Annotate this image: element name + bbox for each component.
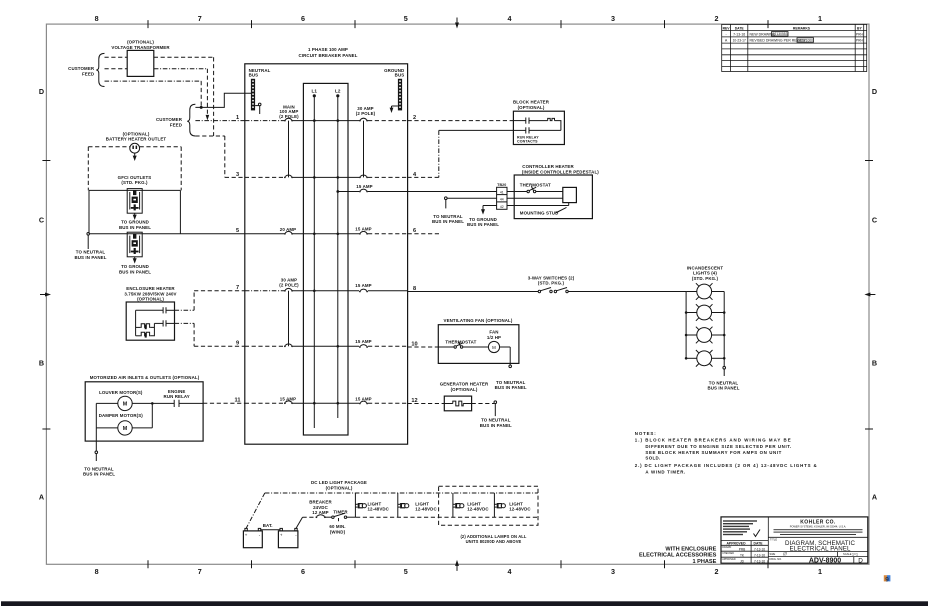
customer feed label lower bbox=[156, 117, 183, 127]
wire battery link bbox=[261, 529, 280, 531]
mounting stud label bbox=[520, 207, 567, 215]
wire row 11 inside panel bbox=[245, 402, 408, 404]
GFCI outlet 1 bbox=[127, 189, 142, 214]
resistor block heater element bbox=[548, 118, 555, 120]
svg-text:12-48VDC: 12-48VDC bbox=[467, 507, 489, 512]
customer feed label upper bbox=[68, 66, 95, 76]
svg-text:BATTERY HEATER OUTLET: BATTERY HEATER OUTLET bbox=[106, 137, 167, 142]
wire thermostat to heater element bbox=[536, 191, 563, 193]
breaker 30 AMP pole 2 row 4 bbox=[359, 175, 368, 178]
wire TB20 pin 41 feed bbox=[408, 191, 497, 193]
controller heater label bbox=[522, 164, 599, 174]
svg-text:(STD. PKG.): (STD. PKG.) bbox=[538, 281, 565, 286]
svg-text:VOLTAGE TRANSFORMER: VOLTAGE TRANSFORMER bbox=[111, 45, 170, 50]
svg-text:WITH ENCLOSURE: WITH ENCLOSURE bbox=[665, 546, 716, 552]
wire DC negative rail bbox=[347, 516, 538, 518]
DC breaker label bbox=[309, 500, 332, 515]
svg-text:REMARKS: REMARKS bbox=[793, 26, 811, 30]
wire feed line B (dashed) bbox=[105, 69, 210, 121]
svg-text:BUS IN PANEL: BUS IN PANEL bbox=[480, 423, 512, 428]
lamp DS2 bbox=[686, 304, 724, 321]
switch S2 bbox=[554, 288, 568, 293]
customer feed brace upper bbox=[96, 53, 104, 86]
lamps neutral label bbox=[707, 380, 739, 390]
LED lamp LED3 label bbox=[467, 501, 489, 511]
wire lamp bus left bbox=[685, 292, 687, 359]
svg-text:+: + bbox=[245, 533, 248, 538]
enclosure heater contact lower bbox=[154, 320, 174, 326]
svg-text:GT130553: GT130553 bbox=[772, 32, 788, 36]
timer switch bbox=[332, 513, 347, 521]
svg-text:B: B bbox=[872, 359, 877, 368]
svg-text:8: 8 bbox=[95, 567, 99, 576]
node L1 bbox=[311, 88, 317, 97]
svg-text:LOUVER MOTOR(S): LOUVER MOTOR(S) bbox=[99, 390, 143, 395]
panel bus assembly box bbox=[303, 83, 348, 435]
GFCI outlets box bbox=[89, 190, 180, 233]
circuit breaker panel title bbox=[298, 47, 357, 58]
svg-text:(STD. PKG.): (STD. PKG.) bbox=[692, 276, 719, 281]
battery BAT1 bbox=[243, 528, 262, 547]
battery heater outlet receptacle bbox=[130, 143, 140, 153]
wire neutral feed to panel bbox=[195, 93, 251, 107]
svg-text:RUN RELAY: RUN RELAY bbox=[164, 394, 190, 399]
enclosure heater internal tie bbox=[136, 310, 141, 336]
node junction dot neutral feed bbox=[200, 106, 203, 109]
breaker MAIN 100 AMP 2 POLE label bbox=[279, 104, 299, 119]
GFCI outlet 1 ground label bbox=[119, 220, 151, 230]
zone row labels left bbox=[39, 87, 44, 502]
run relay contacts label bbox=[517, 135, 539, 143]
svg-text:(OPTIONAL): (OPTIONAL) bbox=[326, 485, 353, 490]
svg-text:15 AMP: 15 AMP bbox=[356, 184, 372, 189]
wire fan feed bbox=[438, 346, 454, 348]
svg-text:DRAWN: DRAWN bbox=[722, 546, 731, 549]
svg-text:SCALE: SCALE bbox=[843, 552, 852, 556]
additional lamps dashed box bbox=[439, 486, 538, 525]
generator heater label bbox=[440, 382, 489, 392]
svg-text:12-48VDC: 12-48VDC bbox=[368, 507, 390, 512]
svg-text:DATE: DATE bbox=[754, 542, 764, 546]
ground bus label bbox=[384, 68, 404, 78]
switch S1 bbox=[538, 288, 552, 293]
svg-text:DWG. NO.: DWG. NO. bbox=[770, 557, 783, 561]
svg-text:15 AMP: 15 AMP bbox=[355, 339, 371, 344]
additional lamps note bbox=[460, 534, 526, 544]
wire bus L1 bbox=[313, 96, 315, 428]
svg-text:BUS: BUS bbox=[395, 73, 405, 78]
wire DC positive rail bbox=[246, 493, 538, 528]
wire feed line A (dashed) bbox=[105, 57, 214, 136]
svg-text:FEED: FEED bbox=[170, 122, 182, 127]
svg-text:C: C bbox=[39, 216, 44, 225]
lamp DS3 bbox=[686, 327, 724, 344]
svg-text:1: 1 bbox=[818, 567, 822, 576]
wire generator heater to neutral bbox=[472, 401, 497, 416]
ground bus terminal strip bbox=[398, 79, 402, 111]
wire feed line C (dash-dot) bbox=[105, 81, 202, 107]
svg-text:DATE: DATE bbox=[735, 26, 745, 30]
wire motor bus left bbox=[96, 403, 118, 428]
neutral label row 5 bbox=[74, 250, 106, 260]
GFCI outlet 2 bbox=[127, 232, 142, 257]
GFCI outlet 2 ground label bbox=[119, 264, 151, 274]
wire breaker to timer bbox=[325, 516, 331, 518]
3-way switches label bbox=[528, 275, 575, 285]
generator heater box bbox=[444, 396, 471, 411]
svg-text:1: 1 bbox=[818, 14, 822, 23]
motor M1 louver bbox=[118, 396, 132, 410]
battery heater outlet dashed enclosure bbox=[88, 147, 181, 191]
svg-text:PRB: PRB bbox=[739, 547, 746, 551]
motor M2 damper bbox=[118, 421, 132, 435]
svg-text:POWER SYSTEMS, KOHLER, WI 5304: POWER SYSTEMS, KOHLER, WI 53044, U.S.A. bbox=[790, 525, 847, 529]
svg-text:M: M bbox=[492, 345, 496, 350]
svg-text:7-13-16: 7-13-16 bbox=[733, 32, 745, 36]
wire neutral pigtail bbox=[255, 103, 261, 114]
svg-text:TIMER: TIMER bbox=[333, 510, 348, 515]
lamp DS4 bbox=[686, 350, 724, 367]
svg-text:TITLE: TITLE bbox=[770, 537, 777, 541]
svg-text:1.) BLOCK HEATER BREAKERS AND: 1.) BLOCK HEATER BREAKERS AND WIRING MAY… bbox=[635, 438, 791, 443]
svg-text:BUS IN PANEL: BUS IN PANEL bbox=[119, 269, 151, 274]
drawing subtitle text bbox=[639, 546, 717, 565]
breaker 15 AMP row 6 bbox=[359, 231, 368, 234]
svg-text:(2 POLE): (2 POLE) bbox=[279, 282, 299, 287]
LED lamp LED4 tap bbox=[493, 493, 495, 517]
neutral label TB20 bbox=[432, 214, 464, 224]
svg-text:+: + bbox=[280, 533, 283, 538]
svg-text:CONTACTS: CONTACTS bbox=[517, 140, 538, 144]
svg-text:PRH: PRH bbox=[856, 32, 864, 36]
svg-text:UNITS 80200D AND ABOVE: UNITS 80200D AND ABOVE bbox=[466, 539, 522, 544]
wire row 10 dashed to fan bbox=[408, 346, 439, 348]
svg-text:BUS IN PANEL: BUS IN PANEL bbox=[119, 225, 151, 230]
svg-text:MOUNTING STUD: MOUNTING STUD bbox=[520, 210, 559, 215]
wire thermostat to fan motor bbox=[463, 346, 489, 348]
svg-text:NOTES:: NOTES: bbox=[635, 431, 656, 436]
breaker 15 AMP row 10 bbox=[359, 345, 368, 348]
svg-text:PRH: PRH bbox=[856, 39, 864, 43]
LED lamp LED4 label bbox=[509, 501, 531, 511]
run relay contact lower bbox=[513, 127, 561, 133]
battery BAT2 bbox=[278, 528, 298, 547]
wire pin 44 to heater element bbox=[507, 197, 563, 199]
svg-text:THERMOSTAT: THERMOSTAT bbox=[520, 183, 551, 188]
svg-text:9: 9 bbox=[885, 576, 889, 583]
LED lamp LED2 bbox=[398, 503, 409, 508]
svg-text:D: D bbox=[39, 87, 44, 96]
controller heater box bbox=[514, 175, 592, 219]
bottom black bar bbox=[1, 601, 928, 606]
resistor heater element 2 bbox=[140, 332, 151, 337]
wire row 5 inside panel bbox=[245, 233, 408, 235]
wire lamps neutral stub bbox=[723, 366, 726, 376]
svg-text:FEED: FEED bbox=[82, 71, 94, 76]
wire pin 42 to mounting stud bbox=[507, 203, 569, 206]
wire 15 AMP half row bbox=[336, 190, 407, 193]
wire MAIN pole tie bbox=[288, 121, 290, 178]
svg-text:7: 7 bbox=[198, 567, 202, 576]
svg-text:15 AMP: 15 AMP bbox=[355, 396, 371, 401]
fan label bbox=[487, 330, 501, 340]
resistor heater element 1 bbox=[140, 324, 151, 329]
svg-text:SIZE: SIZE bbox=[770, 552, 776, 556]
wire block heater return to row 4 bbox=[408, 130, 514, 177]
heater element block controller bbox=[563, 187, 577, 202]
svg-text:CHECKED: CHECKED bbox=[722, 552, 734, 555]
wire neutral stub below row 5 bbox=[87, 235, 89, 249]
lamp DS1 bbox=[686, 283, 724, 300]
circuit breaker panel enclosure bbox=[245, 64, 408, 444]
wire row 8 to switches bbox=[408, 291, 539, 293]
svg-text:(STD. PKG.): (STD. PKG.) bbox=[121, 180, 148, 185]
revision table bbox=[722, 24, 867, 71]
svg-text:A WIND TIMER.: A WIND TIMER. bbox=[645, 469, 685, 474]
neutral bus label bbox=[249, 68, 271, 78]
terminal block TB20 bbox=[497, 187, 507, 209]
wire 30 AMP pole tie bbox=[288, 291, 290, 347]
svg-text:GT171000: GT171000 bbox=[797, 38, 813, 42]
center mark arrow bottom bbox=[455, 560, 459, 571]
svg-text:2: 2 bbox=[715, 567, 719, 576]
svg-text:VENTILATING FAN (OPTIONAL): VENTILATING FAN (OPTIONAL) bbox=[444, 318, 513, 323]
center mark arrow top bbox=[455, 18, 459, 29]
breaker 20 AMP row 5 bbox=[284, 231, 293, 234]
wire motor M1 to relay bbox=[132, 402, 203, 404]
breaker DC 12 AMP bbox=[316, 515, 326, 518]
svg-text:15 AMP: 15 AMP bbox=[355, 283, 371, 288]
svg-text:BUS IN PANEL: BUS IN PANEL bbox=[495, 385, 527, 390]
svg-text:TB20: TB20 bbox=[497, 183, 506, 187]
node taps on L1/L2 bbox=[313, 119, 339, 404]
svg-text:2.) DC LIGHT PACKAGE INCLUDES: 2.) DC LIGHT PACKAGE INCLUDES (2 OR 4) 1… bbox=[635, 463, 818, 468]
wire switches to lamp bus bbox=[568, 291, 686, 293]
wire pin 42 to ground arrow bbox=[481, 206, 497, 215]
battery heater outlet label bbox=[106, 131, 167, 141]
resistor generator heater bbox=[444, 401, 471, 406]
zone ticks left border bbox=[42, 161, 50, 430]
zone ticks right border bbox=[865, 161, 873, 430]
svg-text:(OPTIONAL): (OPTIONAL) bbox=[518, 105, 545, 110]
svg-text:6: 6 bbox=[301, 567, 305, 576]
svg-text:SOLD.: SOLD. bbox=[645, 456, 660, 461]
node neutral terminal circle row 5 bbox=[87, 233, 90, 236]
svg-text:DIFFERENT DUE TO ENGINE SIZE S: DIFFERENT DUE TO ENGINE SIZE SELECTED PE… bbox=[645, 444, 791, 449]
thermostat switch controller bbox=[527, 186, 536, 192]
GFCI outlet 2 ground arrow bbox=[133, 257, 137, 264]
svg-text:CIRCUIT BREAKER PANEL: CIRCUIT BREAKER PANEL bbox=[298, 53, 357, 58]
svg-text:B: B bbox=[39, 359, 44, 368]
breaker MAIN pole 2 bbox=[284, 175, 293, 178]
svg-text:REV: REV bbox=[723, 26, 731, 30]
neutral bus terminal strip bbox=[251, 79, 255, 111]
notes text bbox=[635, 431, 818, 474]
svg-text:4: 4 bbox=[508, 567, 512, 576]
ventilating fan box bbox=[438, 325, 519, 364]
svg-text:(OPTIONAL): (OPTIONAL) bbox=[137, 297, 164, 302]
svg-text:A: A bbox=[39, 493, 44, 502]
svg-text:(OPTIONAL): (OPTIONAL) bbox=[451, 387, 478, 392]
wire block heater right tie bbox=[555, 121, 561, 131]
zone ticks top border bbox=[148, 20, 768, 28]
LED lamp LED4 bbox=[494, 503, 505, 508]
wire row 2 dashed to block heater bbox=[408, 120, 514, 122]
border frame bbox=[46, 24, 869, 564]
fan neutral label bbox=[495, 380, 527, 390]
wire pin 41 to thermostat bbox=[507, 191, 527, 193]
svg-text:BY: BY bbox=[857, 26, 862, 30]
breaker 15 AMP row 12 bbox=[359, 401, 368, 404]
block heater box bbox=[513, 111, 564, 144]
breaker 15 AMP row 8 bbox=[359, 289, 368, 292]
svg-text:(2 POLE): (2 POLE) bbox=[356, 111, 376, 116]
voltage transformer T1 label bbox=[111, 40, 170, 50]
wire motor box neutral stub bbox=[95, 428, 98, 461]
title block bbox=[721, 517, 868, 565]
center mark arrow right bbox=[864, 293, 875, 297]
svg-text:BUS IN PANEL: BUS IN PANEL bbox=[83, 472, 115, 477]
LED lamp LED1 bbox=[355, 503, 366, 508]
svg-text:7-13-16: 7-13-16 bbox=[754, 559, 765, 563]
LED lamp LED1 label bbox=[368, 501, 390, 511]
svg-text:12-48VDC: 12-48VDC bbox=[509, 507, 531, 512]
svg-text:1 PHASE 100 AMP: 1 PHASE 100 AMP bbox=[308, 47, 348, 52]
svg-text:ELECTRICAL ACCESSORIES: ELECTRICAL ACCESSORIES bbox=[639, 553, 717, 559]
motorized air inlets box bbox=[85, 382, 203, 441]
wire row 9 inside panel bbox=[245, 345, 408, 347]
wire heater element 2 tie bbox=[151, 323, 155, 335]
zone column labels bottom bbox=[95, 567, 822, 576]
breaker 30 AMP pole 2 row 9 bbox=[284, 344, 293, 347]
svg-text:3: 3 bbox=[236, 172, 239, 178]
svg-text:A: A bbox=[872, 493, 877, 502]
DC LED light package label bbox=[311, 480, 367, 490]
breaker 15 AMP half row bbox=[359, 189, 368, 192]
wire fan motor to neutral bbox=[500, 347, 512, 368]
enclosure heater contact upper bbox=[136, 307, 175, 313]
svg-text:3: 3 bbox=[611, 567, 615, 576]
LED lamp LED2 tap bbox=[397, 493, 399, 517]
svg-text:15 AMP: 15 AMP bbox=[355, 227, 371, 232]
svg-text:BAT.: BAT. bbox=[263, 523, 273, 528]
svg-text:8: 8 bbox=[95, 14, 99, 23]
engine run relay label bbox=[164, 389, 190, 399]
wire customer feed row 1 (dash-dot) bbox=[195, 120, 244, 122]
center mark arrow left bbox=[40, 293, 51, 297]
svg-text:BUS: BUS bbox=[249, 73, 259, 78]
svg-text:6: 6 bbox=[301, 14, 305, 23]
enclosure heater label bbox=[124, 286, 176, 301]
GFCI outlets label bbox=[118, 175, 152, 185]
svg-text:BUS IN PANEL: BUS IN PANEL bbox=[467, 222, 499, 227]
svg-text:5: 5 bbox=[404, 567, 408, 576]
breaker 30 AMP pole 1 row 2 bbox=[359, 118, 368, 121]
GFCI outlet 1 ground arrow bbox=[133, 213, 137, 220]
svg-text:10-23-17: 10-23-17 bbox=[733, 39, 746, 43]
wire motor M2 parallel tie bbox=[132, 402, 153, 428]
LED lamp LED3 bbox=[453, 503, 464, 508]
svg-text:BUS IN PANEL: BUS IN PANEL bbox=[707, 386, 739, 391]
voltage transformer T1 bbox=[127, 50, 154, 76]
timer wind label bbox=[329, 524, 345, 534]
svg-text:D: D bbox=[858, 558, 863, 565]
svg-text:SEE BLOCK HEATER SUMMARY FOR A: SEE BLOCK HEATER SUMMARY FOR AMPS ON UNI… bbox=[645, 450, 781, 455]
wire lamp bus right bbox=[723, 292, 725, 367]
svg-text:BUS IN PANEL: BUS IN PANEL bbox=[74, 255, 106, 260]
zone column labels top bbox=[95, 14, 822, 23]
engine run relay contact bbox=[174, 400, 179, 407]
block heater label bbox=[513, 100, 550, 110]
svg-text:ADV-8900: ADV-8900 bbox=[809, 557, 841, 564]
node lamp bus junctions bbox=[685, 311, 726, 359]
incandescent lights label bbox=[687, 265, 724, 280]
breaker MAIN pole 1 bbox=[284, 118, 293, 121]
wire row 11 dashed bbox=[203, 402, 245, 404]
svg-text:M: M bbox=[123, 402, 128, 408]
svg-text:2: 2 bbox=[715, 14, 719, 23]
wire row 5 to GFCI bbox=[90, 233, 245, 235]
svg-text:44: 44 bbox=[500, 198, 504, 202]
svg-text:1=1: 1=1 bbox=[852, 552, 858, 556]
svg-text:C: C bbox=[872, 216, 877, 225]
wire bus L2 bbox=[337, 96, 339, 418]
svg-text:(WIND): (WIND) bbox=[330, 529, 346, 534]
svg-text:3: 3 bbox=[611, 14, 615, 23]
breaker 30 AMP pole 1 row 7 bbox=[284, 288, 293, 291]
svg-text:1: 1 bbox=[236, 115, 239, 121]
fan thermostat switch bbox=[454, 342, 463, 348]
breaker 30 AMP 2 POLE label row 7 bbox=[279, 277, 299, 287]
wire 30 AMP right pole tie bbox=[363, 121, 365, 178]
svg-text:L2: L2 bbox=[335, 88, 341, 93]
wire row 6 dashed stub bbox=[408, 233, 439, 235]
node L2 bbox=[335, 88, 341, 97]
wire enclosure heater to row 9 bbox=[175, 323, 245, 346]
svg-text:BUS IN PANEL: BUS IN PANEL bbox=[432, 219, 464, 224]
LED lamp LED3 tap bbox=[452, 493, 454, 517]
svg-text:7-13-16: 7-13-16 bbox=[754, 553, 765, 557]
customer feed brace lower bbox=[187, 104, 195, 136]
svg-text:(INSIDE CONTROLLER PEDESTAL): (INSIDE CONTROLLER PEDESTAL) bbox=[522, 169, 599, 174]
svg-text:APPROVED: APPROVED bbox=[726, 542, 746, 546]
svg-text:7: 7 bbox=[198, 14, 202, 23]
LED lamp LED2 label bbox=[415, 501, 437, 511]
svg-text:1/2 HP: 1/2 HP bbox=[487, 335, 501, 340]
svg-text:41: 41 bbox=[500, 190, 504, 194]
breaker 15 AMP row 11 bbox=[284, 401, 293, 404]
breaker 30 AMP 2 POLE label row 2 bbox=[356, 106, 376, 116]
ground bus pigtail arrow bbox=[390, 106, 398, 113]
wire pin 44 to neutral bbox=[445, 197, 497, 209]
svg-text:4: 4 bbox=[508, 14, 512, 23]
svg-text:7-13-16: 7-13-16 bbox=[754, 547, 765, 551]
wire row 12 dashed to generator heater bbox=[408, 403, 445, 405]
fan motor M bbox=[488, 341, 499, 352]
svg-text:MOTORIZED AIR INLETS & OUTLETS: MOTORIZED AIR INLETS & OUTLETS (OPTIONAL… bbox=[90, 375, 200, 380]
svg-text:APPROVED: APPROVED bbox=[722, 558, 736, 561]
svg-text:L1: L1 bbox=[311, 88, 317, 93]
ground label TB20 bbox=[467, 217, 499, 227]
svg-text:12-48VDC: 12-48VDC bbox=[415, 507, 437, 512]
wire enclosure heater to row 7 bbox=[175, 291, 245, 311]
zone row labels right bbox=[872, 87, 877, 502]
generator heater neutral label bbox=[480, 418, 512, 428]
wire row 3 inside panel bbox=[245, 176, 408, 178]
svg-text:42: 42 bbox=[500, 205, 504, 209]
wire battery to breaker bbox=[296, 517, 315, 528]
wire row 7 inside panel bbox=[245, 290, 408, 292]
